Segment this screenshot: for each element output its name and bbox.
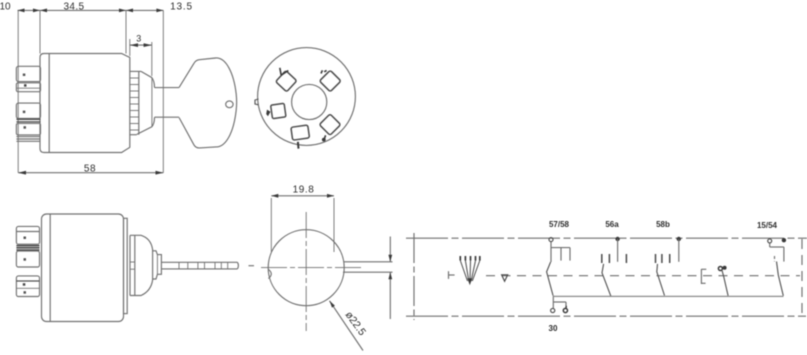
- svg-text:56a: 56a: [605, 220, 619, 229]
- svg-text:58b: 58b: [656, 220, 670, 229]
- svg-text:13.5: 13.5: [170, 2, 193, 13]
- svg-text:34.5: 34.5: [63, 2, 84, 13]
- svg-text:10: 10: [0, 2, 11, 13]
- svg-text:15/54: 15/54: [757, 221, 778, 230]
- svg-text:57/58: 57/58: [549, 220, 570, 229]
- svg-text:58: 58: [84, 164, 96, 175]
- svg-text:3: 3: [136, 34, 141, 44]
- svg-text:30: 30: [549, 324, 558, 333]
- svg-text:ø22.5: ø22.5: [343, 309, 369, 338]
- svg-text:19.8: 19.8: [293, 185, 315, 196]
